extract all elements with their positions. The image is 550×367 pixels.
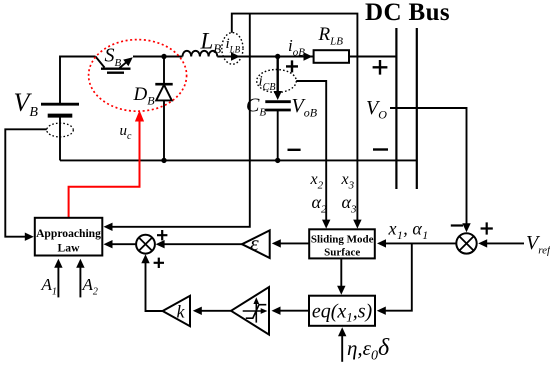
minus at summer: [451, 224, 463, 226]
wire k gain to left summer: [146, 263, 163, 311]
arrowhead into epsilon gain: [272, 239, 281, 247]
DC bus line left: [395, 28, 397, 189]
svg-text:Approaching: Approaching: [36, 227, 101, 240]
wire V_O sense to summer: [390, 108, 467, 228]
wire V_ref into summer: [486, 242, 524, 244]
switch S_B: [96, 57, 133, 73]
red highlight ellipse around switch cell: [89, 40, 187, 112]
svg-text:Surface: Surface: [324, 246, 360, 258]
capacitor C_B: [265, 102, 291, 110]
resistor R_LB: [314, 50, 349, 63]
block Sliding Mode Surface: [309, 229, 375, 258]
summer junction left: [136, 235, 155, 254]
gain saturation block: [231, 287, 269, 335]
wire switch to inductor: [133, 56, 183, 58]
arrowhead into k gain: [193, 307, 202, 315]
minus bus: [373, 148, 388, 150]
DC bus line right: [416, 28, 418, 189]
svg-text:DC Bus: DC Bus: [365, 0, 450, 26]
arrowhead V_ref into summer: [478, 239, 487, 247]
wire left sense feedback to Approaching Law: [5, 129, 60, 236]
wire epsilon to summer left: [164, 243, 242, 245]
wire branch to eq block: [381, 243, 412, 310]
diode D_B: [155, 84, 172, 100]
wire capacitor branch upper with i_CB arrow: [277, 57, 279, 93]
red arrowhead u_c: [135, 110, 144, 121]
arrowhead x2 into Sliding Mode Surface: [322, 220, 330, 229]
node diode bottom junction: [161, 158, 166, 163]
node capacitor bottom junction: [275, 158, 280, 163]
arrowhead into eq top: [337, 286, 345, 295]
wire summer to Sliding Mode Surface: [385, 242, 456, 244]
arrowhead into Sliding Mode Surface right: [377, 239, 386, 247]
arrowhead x3 into Sliding Mode Surface: [353, 220, 361, 229]
plus capacitor: [286, 60, 298, 72]
plus bus: [373, 60, 388, 75]
wire feedback from rail to Approaching Law: [112, 14, 250, 227]
wire left summer to Approaching Law: [112, 243, 136, 245]
arrowhead into eq block right: [377, 307, 386, 315]
gain k: [163, 296, 190, 326]
sense ellipse on battery wire: [47, 123, 74, 137]
arrowhead into Approaching Law left: [25, 233, 34, 241]
svg-text:k: k: [177, 302, 186, 322]
arrowhead into summer left: [156, 240, 165, 248]
current probe ellipse i_CB: [257, 70, 297, 93]
block eq(x1,s): [309, 296, 375, 326]
arrowhead into summer top: [462, 223, 470, 232]
arrowhead A2: [76, 259, 84, 268]
arrow A1 into Approaching Law: [57, 266, 59, 297]
wire eq block to saturation gain: [280, 310, 309, 312]
plus at left summer top: [157, 230, 167, 240]
arrowhead i_oB on wire: [304, 52, 313, 60]
node capacitor top junction: [275, 54, 280, 59]
plus at left summer bottom: [154, 258, 164, 268]
svg-text:η,ε0δ: η,ε0δ: [347, 335, 390, 364]
wire saturation to k gain: [201, 310, 231, 312]
gain epsilon: [242, 230, 270, 258]
wire eta input into eq block: [341, 335, 343, 362]
node diode top junction: [161, 54, 166, 59]
wire diode branch: [163, 57, 165, 161]
battery V_B: [41, 104, 79, 115]
arrow A2 into Approaching Law: [79, 266, 81, 297]
arrowhead into saturation gain: [272, 307, 281, 315]
svg-text:ε: ε: [250, 231, 259, 256]
wire capacitor branch lower: [277, 110, 279, 160]
wire x3 sense loop top rail: [232, 14, 358, 225]
minus capacitor: [288, 149, 301, 151]
current probe ellipse i_LB: [222, 33, 243, 65]
wire Sliding Mode Surface to epsilon gain: [280, 242, 310, 244]
red control line u_c: [69, 120, 140, 218]
arrowhead A1: [54, 259, 62, 268]
arrowhead i_LB on wire: [231, 52, 240, 60]
summer junction right: [456, 233, 476, 253]
block Approaching Law: [35, 218, 103, 256]
arrowhead into Approaching Law right top: [104, 223, 113, 231]
svg-text:Sliding Mode: Sliding Mode: [311, 233, 374, 245]
plus at summer: [481, 222, 493, 234]
arrowhead into left summer bottom: [141, 254, 149, 263]
arrowhead into Approaching Law right bottom: [104, 240, 113, 248]
arrowhead i_CB down: [274, 91, 282, 100]
wire inductor to DC bus with R_LB: [217, 56, 396, 58]
inductor L_B: [183, 51, 218, 57]
wire Sliding Mode Surface to eq block: [340, 259, 342, 287]
wire x2 sense from capacitor node: [278, 81, 327, 225]
bottom rail: [60, 159, 417, 161]
arrowhead eta into eq bottom: [338, 327, 346, 336]
svg-text:Law: Law: [58, 242, 81, 255]
wire battery top to switch: [60, 57, 96, 106]
svg-text:eq(x1,s): eq(x1,s): [312, 301, 373, 325]
wire battery bottom to ground rail: [59, 116, 61, 161]
